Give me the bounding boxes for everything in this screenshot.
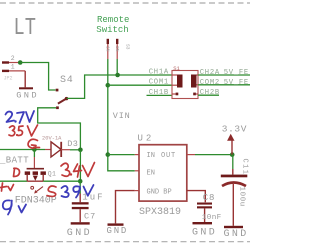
- wire switch bottom contact to diode node: [38, 108, 81, 150]
- capacitor C8: [197, 203, 212, 223]
- switch S4 bottom contact: [56, 106, 59, 109]
- remote pin label 1: [105, 46, 111, 52]
- junction at pin 2: [18, 60, 23, 65]
- svg-text:Remote: Remote: [97, 15, 129, 25]
- ground symbol at JP2: [16, 87, 39, 100]
- U2 pin name EN: [147, 169, 155, 177]
- note Remote Switch: [96, 15, 129, 35]
- net label CH2B: [200, 89, 220, 97]
- U2 IN pin stub: [135, 154, 139, 156]
- net label BATT: [0, 156, 29, 166]
- supply label 3.3V: [222, 123, 247, 134]
- refdes C7: [84, 211, 96, 221]
- svg-text:COM2: COM2: [200, 79, 220, 87]
- handwriting red G: [28, 139, 39, 148]
- wire OUT to 3.3V node: [195, 154, 232, 156]
- net label COM2: [200, 79, 220, 87]
- svg-text:20V-1A: 20V-1A: [42, 135, 62, 141]
- frame dashed border top: [0, 2, 250, 4]
- handwriting blue 9 arrow bottom left: [3, 200, 26, 214]
- relay S1 pin stubs: [172, 75, 198, 94]
- U2 GND pin wire to ground: [116, 191, 140, 224]
- svg-text:_BATT: _BATT: [0, 156, 29, 166]
- handwriting red S: [47, 186, 56, 196]
- value 1uF: [82, 193, 104, 203]
- junction COM1 net: [106, 83, 111, 88]
- supply symbol 3.3V arrow: [227, 134, 234, 155]
- refdes S4: [60, 75, 74, 86]
- regulator U2 box: [139, 145, 187, 201]
- svg-text:CH2B: CH2B: [200, 89, 220, 97]
- relay S1 left contact bar: [177, 75, 183, 88]
- svg-text:JP2: JP2: [4, 76, 13, 82]
- wire pin2 to switch top contact: [20, 63, 55, 91]
- svg-text:GND: GND: [16, 91, 39, 101]
- handwriting red 3.5V: [9, 125, 38, 136]
- connector JP2 pin 1: [2, 70, 25, 72]
- ground symbol at C11: [224, 226, 249, 240]
- value 10nF: [202, 214, 222, 222]
- svg-text:GND BP: GND BP: [147, 188, 172, 196]
- svg-text:S1: S1: [173, 65, 180, 72]
- svg-text:EN: EN: [147, 169, 155, 177]
- junction CH1A net: [115, 73, 120, 78]
- svg-text:U2: U2: [138, 134, 155, 144]
- U2 pin name OUT: [161, 152, 176, 160]
- net label CH1B: [149, 89, 169, 97]
- net label COM1: [149, 79, 169, 87]
- wire VBATT from edge to diode: [0, 149, 45, 151]
- svg-text:3.3V: 3.3V: [222, 123, 247, 134]
- svg-text:Switch: Switch: [96, 25, 128, 35]
- U2 pin name GND BP: [147, 188, 172, 196]
- refdes JP2: [4, 76, 13, 82]
- relay S1 left bottom pin pad: [176, 93, 179, 96]
- refdes C11 rotated: [241, 159, 249, 176]
- remote pin label 2: [114, 46, 120, 52]
- svg-text:C7: C7: [84, 211, 96, 221]
- wire battery rail to Q1: [0, 180, 27, 182]
- transistor Q1 FDN340P: [25, 157, 46, 194]
- U2 OUT pin stub: [187, 154, 195, 156]
- wire 3.3V node down to C11: [232, 155, 234, 175]
- diode D3: [45, 142, 70, 157]
- relay S1 right contact bar: [191, 75, 197, 88]
- svg-text:COM1: COM1: [149, 79, 169, 87]
- svg-text:C11: C11: [241, 159, 249, 176]
- frame dashed border bottom: [0, 241, 250, 243]
- svg-text:2N: 2N: [114, 46, 120, 52]
- wire node down to C7: [79, 181, 81, 202]
- net label VIN: [113, 111, 131, 121]
- value 100uF rotated: [237, 187, 245, 207]
- wire CH1B stub: [147, 94, 172, 96]
- svg-text:5V_FE: 5V_FE: [224, 69, 249, 77]
- net label CH1A: [149, 68, 169, 76]
- junction diode cathode node: [78, 148, 83, 153]
- svg-text:FDN340P: FDN340P: [15, 196, 57, 207]
- refdes U2: [138, 134, 155, 144]
- svg-text:5V_FE: 5V_FE: [224, 79, 249, 87]
- svg-text:GND: GND: [192, 227, 217, 238]
- wire VIN to IN pin: [108, 154, 135, 156]
- switch S4 lever: [58, 97, 68, 104]
- handwriting blue 2.7V: [6, 111, 35, 123]
- svg-text:10nF: 10nF: [202, 214, 222, 222]
- refdes C8: [203, 193, 215, 203]
- wire COM2 to edge: [198, 84, 250, 86]
- svg-text:GND: GND: [107, 226, 129, 236]
- svg-text:SPX3819: SPX3819: [139, 207, 181, 218]
- svg-text:2: 2: [11, 55, 15, 62]
- svg-text:GND: GND: [67, 228, 92, 239]
- net VIN vertical wire: [108, 59, 135, 171]
- handwriting red marks left edge: [1, 183, 14, 191]
- title text LT: [14, 15, 37, 42]
- junction at Q1 gate: [32, 147, 37, 152]
- svg-text:C8: C8: [203, 193, 215, 203]
- handwriting blue 3.9V: [62, 185, 94, 198]
- svg-text:D3: D3: [67, 139, 78, 149]
- svg-text:OUT: OUT: [161, 152, 176, 160]
- svg-text:GND: GND: [224, 229, 249, 240]
- capacitor C7: [72, 202, 89, 222]
- handwriting red D: [14, 168, 20, 176]
- ground symbol at C7: [67, 222, 92, 239]
- svg-text:CH2A: CH2A: [200, 69, 220, 77]
- junction 3.3V node: [230, 152, 235, 157]
- net label CH2A: [200, 69, 220, 77]
- svg-text:1uF: 1uF: [82, 193, 104, 203]
- U2 pin name IN: [147, 152, 155, 160]
- svg-text:S3: S3: [125, 44, 131, 50]
- junction VIN at U2 IN: [106, 152, 111, 157]
- ground symbol at U2: [107, 223, 129, 236]
- junction Q1 output node: [78, 179, 83, 184]
- svg-text:S4: S4: [60, 75, 74, 86]
- net label 5V_FE row1: [224, 69, 249, 77]
- capacitor C11: [221, 175, 248, 226]
- connector JP2 pin 2: [2, 61, 20, 63]
- wire CH2A to edge: [198, 74, 250, 76]
- ground symbol at C8: [192, 222, 217, 238]
- svg-text:CH1A: CH1A: [149, 68, 169, 76]
- U2 EN pin stub: [135, 170, 139, 172]
- handwriting red 3.4V: [61, 163, 95, 178]
- relay S1 right bottom pin pad: [193, 93, 196, 96]
- svg-text:Q1: Q1: [48, 170, 56, 177]
- diode D3 value 20V-1A: [42, 135, 62, 141]
- wire CH2B stub: [198, 94, 219, 96]
- wire switch common to CH1A row: [67, 75, 172, 98]
- wire remote pin2 down: [116, 59, 118, 75]
- svg-text:LT: LT: [14, 15, 37, 42]
- svg-text:1N: 1N: [105, 46, 111, 52]
- switch S4 top contact: [56, 89, 59, 92]
- value FDN340P: [15, 196, 57, 207]
- svg-text:IN: IN: [147, 152, 155, 160]
- refdes S1: [173, 65, 180, 72]
- wire node down to Q1 output row: [79, 150, 81, 181]
- pin number 2: [11, 55, 15, 62]
- svg-text:VIN: VIN: [113, 111, 131, 121]
- wire pin1 to ground: [24, 71, 26, 87]
- wire diode cathode to node: [70, 149, 80, 151]
- svg-text:CH1B: CH1B: [149, 89, 169, 97]
- remote switch pin 1: [107, 39, 109, 59]
- pin number 1: [11, 63, 15, 70]
- svg-text:1: 1: [11, 63, 15, 70]
- remote switch pin 2: [116, 39, 118, 59]
- refdes Q1: [48, 170, 56, 177]
- relay S1 box: [172, 71, 198, 99]
- svg-text:100u: 100u: [237, 187, 245, 207]
- value SPX3819: [139, 207, 181, 218]
- net label 5V_FE row2: [224, 79, 249, 87]
- refdes D3: [67, 139, 78, 149]
- wire gate down: [33, 150, 35, 158]
- U2 BP pin wire to C8: [187, 191, 206, 203]
- wire Q1 source to node: [43, 180, 80, 182]
- wire COM1: [108, 84, 172, 86]
- remote pin label S3: [125, 44, 131, 50]
